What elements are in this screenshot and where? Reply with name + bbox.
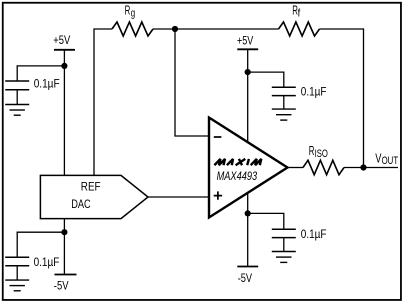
svg-text:0.1µF: 0.1µF <box>34 76 60 90</box>
wire: left +5V supply rail down through DAC to -5V <box>63 50 65 275</box>
capacitor C1 0.1uF top-left plates <box>5 80 29 82</box>
capacitor C4 0.1uF bottom-left plates <box>5 256 29 258</box>
wire: node E left to bottom-left capacitor <box>17 232 64 257</box>
DAC block <box>40 175 148 218</box>
resistor Riso <box>303 160 344 174</box>
wire: bottom-left capacitor to ground <box>16 266 18 280</box>
ground (mid-top) <box>272 108 296 110</box>
svg-text:OUT: OUT <box>382 155 399 167</box>
junction node C (mid -5V) <box>245 210 251 216</box>
op-amp non-inverting input sign <box>214 191 222 199</box>
wire: node B right to mid-top capacitor <box>248 72 284 87</box>
junction node B (mid +5V) <box>245 69 251 75</box>
op-amp inverting input sign <box>214 136 222 138</box>
svg-text:-5V: -5V <box>238 271 253 285</box>
resistor Rg <box>112 22 153 36</box>
svg-text:MAX4493: MAX4493 <box>217 169 258 183</box>
svg-text:g: g <box>131 8 135 20</box>
svg-text:REF: REF <box>81 179 101 193</box>
wire: op-amp output to Riso <box>288 167 304 169</box>
svg-text:R: R <box>125 4 131 18</box>
capacitor C2 0.1uF mid-top plates <box>272 86 296 88</box>
svg-text:+5V: +5V <box>237 33 254 47</box>
resistor Rf <box>279 22 320 36</box>
junction node D (left +5V) <box>61 63 67 69</box>
junction node E (left -5V) <box>61 229 67 235</box>
wire: node D left to top-left capacitor <box>17 66 64 81</box>
wire: node A down to op-amp inverting input <box>175 29 209 136</box>
wire: Rg right to node A to Rf left <box>153 28 279 30</box>
capacitor C3 0.1uF mid-bottom plates <box>272 228 296 230</box>
+5V terminal bar (middle) <box>237 48 258 50</box>
wire: top-left capacitor to ground <box>16 90 18 105</box>
svg-text:ISO: ISO <box>315 148 328 160</box>
svg-text:-5V: -5V <box>54 279 69 293</box>
junction node F (output VOUT) <box>360 164 366 170</box>
wire: mid-top capacitor to ground <box>283 96 285 110</box>
-5V terminal bar (middle) <box>237 266 258 268</box>
ground (mid-bottom) <box>272 251 296 253</box>
svg-text:0.1µF: 0.1µF <box>301 227 327 241</box>
svg-text:0.1µF: 0.1µF <box>34 255 60 269</box>
junction node A (Rg/Rf/inverting input) <box>172 26 178 32</box>
svg-text:DAC: DAC <box>71 197 91 211</box>
wire: Riso to VOUT <box>344 167 398 169</box>
-5V terminal bar (left) <box>55 274 77 276</box>
ground (bottom-left) <box>5 279 29 281</box>
wire: DAC output to op-amp non-inverting input <box>148 196 209 198</box>
wire: Rf right to feedback corner down to output node <box>320 29 364 168</box>
svg-text:+5V: +5V <box>53 33 70 47</box>
op-amp U1 MAX4493 <box>209 118 288 218</box>
wire: Rg left lead down to DAC REF pin <box>94 29 112 176</box>
svg-text:0.1µF: 0.1µF <box>301 85 327 99</box>
wire: mid +5V supply rail down through op-amp to -5V <box>247 49 249 266</box>
wire: node C right to mid-bottom capacitor <box>248 213 284 229</box>
ground (top-left) <box>5 104 29 106</box>
MAXIM logo <box>214 159 261 165</box>
+5V terminal bar (left) <box>54 49 75 51</box>
wire: mid-bottom capacitor to ground <box>283 238 285 252</box>
